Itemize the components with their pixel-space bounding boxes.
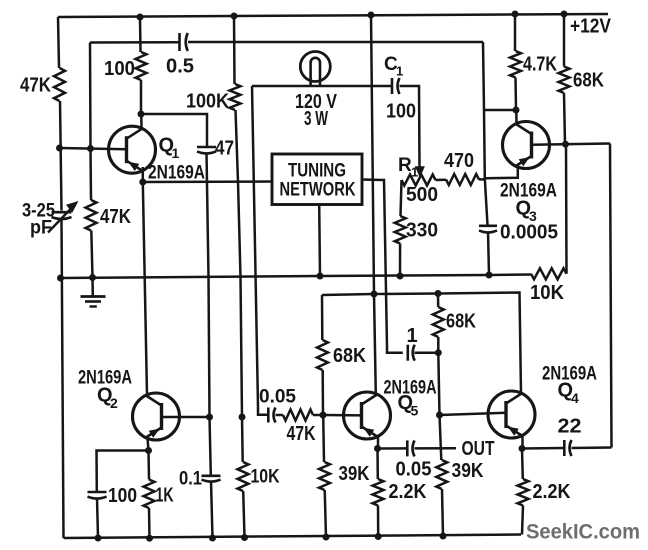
capacitor 47 <box>197 147 216 153</box>
svg-text:2.2K: 2.2K <box>389 481 427 503</box>
label 0.0005 <box>500 222 558 244</box>
svg-text:0.05: 0.05 <box>259 386 296 408</box>
wire 39K top lead (left) <box>322 415 325 462</box>
label 100K <box>186 91 230 113</box>
resistor 47K (Q1 base to +12V) <box>54 68 65 101</box>
wire top +12V rail <box>58 14 608 17</box>
ground symbol <box>81 297 106 307</box>
label 39K (right) <box>452 460 484 482</box>
wire 0.1 cap to bottom rail <box>211 481 213 538</box>
wire Q3 collector stub <box>515 110 518 125</box>
label 47K (Q1 base lower) <box>100 206 131 228</box>
label 330 <box>406 220 438 242</box>
svg-text:2: 2 <box>110 395 118 411</box>
label +12V <box>570 16 612 38</box>
wire 68K bottom to junction <box>437 337 440 353</box>
wire 68K lead (mid) <box>437 294 440 308</box>
wire Q4 emitter to 22 cap <box>522 447 563 450</box>
node Q2 base wire end junction <box>239 414 246 421</box>
wire Q2 emitter stub <box>148 438 149 451</box>
svg-text:+12V: +12V <box>570 16 612 38</box>
svg-text:68K: 68K <box>333 345 366 367</box>
wire oscillator bus (Q5/Q4 collectors) <box>322 293 521 394</box>
svg-text:47K: 47K <box>100 206 131 228</box>
label TUNING <box>288 161 346 182</box>
node ground stub junction <box>89 274 96 281</box>
svg-text:47: 47 <box>215 138 234 160</box>
svg-text:470: 470 <box>444 150 474 172</box>
svg-text:2.2K: 2.2K <box>533 481 571 503</box>
svg-text:1: 1 <box>396 64 403 79</box>
svg-text:0.05: 0.05 <box>396 459 432 481</box>
wire Q3 collector junction to bypass line <box>484 109 516 112</box>
node 0.1 line bottom rail junction <box>209 535 216 542</box>
transistor Q3 2N169A <box>503 122 550 169</box>
label pF <box>30 218 52 239</box>
resistor 100 (Q1 collector) <box>136 52 147 80</box>
label 68K (left osc) <box>333 345 366 367</box>
wire left rail lower segment <box>62 220 64 539</box>
label OUT <box>462 438 495 460</box>
wire 39K bottom lead (left) <box>325 490 326 537</box>
wire 1-cap to 68K bottom node <box>415 351 439 354</box>
wire Q1 emitter to tuning network <box>143 180 272 183</box>
resistor 470 <box>446 174 479 185</box>
node 68K bottom / 1-cap junction <box>435 349 442 356</box>
wire 4.7K to Q3 collector node <box>514 78 517 111</box>
svg-text:47K: 47K <box>20 75 51 97</box>
label 4.7K <box>523 54 557 76</box>
wire Q3 emitter stub <box>485 165 518 179</box>
resistor 1K <box>144 480 155 509</box>
svg-text:pF: pF <box>30 218 52 239</box>
wire Q5 base wire <box>323 414 362 417</box>
capacitor 0.05 (Q5 input coupling) <box>268 408 275 423</box>
label SeekIC.com watermark <box>526 521 640 544</box>
resistor 68K (Q3 base) <box>559 67 570 94</box>
wire 68K top lead (Q3) <box>563 14 566 67</box>
svg-text:68K: 68K <box>446 310 476 332</box>
resistor 2.2K (Q5 emitter) <box>373 479 384 506</box>
svg-text:0.5: 0.5 <box>166 56 194 78</box>
wire tuning network bottom pin <box>318 205 321 277</box>
svg-text:68K: 68K <box>573 70 604 92</box>
label 2.2K (Q4) <box>533 481 571 503</box>
wire 0.5 cap left segment <box>90 41 179 44</box>
label 68K (Q3) <box>573 70 604 92</box>
wire ground stub <box>91 278 94 296</box>
svg-text:22: 22 <box>558 415 582 437</box>
wire 0.5 cap right segment <box>188 41 483 44</box>
label C1 <box>384 54 403 79</box>
wire 68K to Q5 base node <box>321 370 324 415</box>
label 22 <box>558 415 582 437</box>
wire 100K line middle <box>236 110 243 417</box>
label 2N169A (Q3) <box>500 179 557 201</box>
label 3-25 <box>22 201 55 222</box>
node 39K bottom rail junction (right) <box>440 533 447 540</box>
wire C1 to R1 wiper <box>400 86 420 167</box>
svg-text:1K: 1K <box>156 485 174 507</box>
resistor 330 <box>395 216 406 244</box>
node Q4 emitter junction <box>519 445 526 452</box>
label 2N169A (Q5) <box>384 377 437 399</box>
capacitor 22 <box>564 440 571 456</box>
svg-text:5: 5 <box>411 403 419 419</box>
wire 39K bottom lead (right) <box>442 489 443 536</box>
node Q3 collector junction <box>513 107 520 114</box>
label 0.1 <box>179 468 202 489</box>
svg-text:SeekIC.com: SeekIC.com <box>526 521 640 544</box>
svg-text:1: 1 <box>411 165 418 180</box>
svg-text:4: 4 <box>571 390 579 406</box>
wire 47K to ground wire <box>91 231 92 278</box>
resistor 47K (Q1 base to ground wire) <box>86 200 97 231</box>
node V8 junction on oscillator bus <box>371 291 378 298</box>
wire down to 39K (right) <box>440 415 442 460</box>
svg-text:500: 500 <box>406 184 438 206</box>
label 0.5 <box>166 56 194 78</box>
transistor Q1 2N169A <box>109 126 156 173</box>
svg-text:39K: 39K <box>339 463 370 485</box>
node top rail / 100K line <box>231 13 238 20</box>
label 1K <box>156 485 174 507</box>
wire 22 cap to right rail <box>572 446 612 449</box>
node Q4 base wire junction <box>436 412 443 419</box>
wire Q1 emitter stub <box>142 167 145 182</box>
node top rail / 68K <box>561 11 568 18</box>
label 10K (horizontal) <box>530 282 565 304</box>
label Q4 <box>558 380 580 407</box>
node top rail / V8 <box>368 12 375 19</box>
node Q1 emitter junction <box>139 179 146 186</box>
node tuning network pin to ground wire <box>317 273 324 280</box>
capacitor 0.0005 <box>479 226 497 233</box>
svg-text:10K: 10K <box>251 466 280 488</box>
resistor 68K (middle) <box>433 307 444 337</box>
wire 10K riser to Q3 base <box>565 145 568 274</box>
capacitor 1 (feedback) <box>408 345 415 361</box>
resistor 4.7K <box>510 51 521 78</box>
label 39K (left) <box>339 463 370 485</box>
wire 4.7K top lead <box>514 14 517 51</box>
svg-text:100: 100 <box>386 101 416 123</box>
wire 68K lead (left osc) <box>321 295 324 340</box>
label Q1 <box>159 135 180 162</box>
node 2.2K bottom rail junction (Q5) <box>375 533 382 540</box>
node 330 ground bus junction <box>397 273 404 280</box>
wire 100 resistor top lead <box>139 17 142 52</box>
wire Q5 emitter to 0.05 cap <box>378 447 407 450</box>
label 2N169A (Q4) <box>542 363 597 385</box>
svg-text:TUNING: TUNING <box>288 161 346 182</box>
label 100 (Q2 bypass) <box>108 485 137 507</box>
svg-text:1: 1 <box>172 145 180 161</box>
wire tuning network right pin <box>362 180 403 353</box>
label 0.05 (output) <box>396 459 432 481</box>
wire OUT stub <box>415 447 457 450</box>
wire 1K bottom lead <box>148 508 151 538</box>
label 500 <box>406 184 438 206</box>
label 47K (top left) <box>20 75 51 97</box>
wire left rail mid segment <box>60 101 62 211</box>
wire 2.2K top lead (Q4) <box>521 449 524 480</box>
label 10K (bottom) <box>251 466 280 488</box>
label 120 V <box>295 91 338 113</box>
resistor 68K (left oscillator) <box>317 340 328 370</box>
resistor 100K <box>230 84 241 110</box>
wire V8 from top rail to Q5 collector <box>371 15 376 395</box>
svg-text:NETWORK: NETWORK <box>280 180 356 201</box>
label 0.05 (input) <box>259 386 296 408</box>
label Q5 <box>398 392 419 418</box>
svg-text:330: 330 <box>406 220 438 242</box>
svg-text:47K: 47K <box>287 423 316 445</box>
wire 330 bottom lead <box>399 244 402 277</box>
wire 0.5-cap branch vertical (x=90) <box>90 43 91 201</box>
capacitor 100 (Q2 bypass) <box>88 492 107 499</box>
resistor 39K (left) <box>319 462 330 490</box>
label 47 (cap) <box>215 138 234 160</box>
label Q3 <box>516 198 538 225</box>
wire left rail upper segment <box>58 17 59 68</box>
svg-text:R: R <box>398 155 412 176</box>
wire 0.05 to 47K <box>276 414 284 417</box>
wire Q3 base wire <box>532 144 611 145</box>
transistor Q2 2N169A <box>133 393 180 440</box>
resistor 10K (vertical) <box>238 462 249 491</box>
node Q2 base wire junction on 0.1 line <box>206 414 213 421</box>
wire 47K to Q5 base node <box>313 414 323 417</box>
wire Q5 emitter stub <box>377 438 380 449</box>
label 100 (C1) <box>386 101 416 123</box>
svg-text:3 W: 3 W <box>304 108 328 130</box>
wire Q4 emitter stub <box>521 437 524 449</box>
wire 10K top lead <box>241 417 244 462</box>
transistor Q4 2N169A <box>488 391 535 438</box>
node 39K bottom rail junction (left) <box>323 534 330 541</box>
node 47K top junction on Q1 base wire <box>87 145 94 152</box>
wire 2.2K bottom lead (Q4) <box>522 506 523 535</box>
node ground bus / left rail <box>57 275 64 282</box>
label 68K (mid) <box>446 310 476 332</box>
svg-text:0.1: 0.1 <box>179 468 202 489</box>
svg-text:3: 3 <box>529 208 537 224</box>
wiper arrow onto R1 <box>415 166 425 178</box>
wire 68K bottom lead (Q3) <box>564 93 565 144</box>
capacitor 0.1 <box>202 476 221 482</box>
transistor Q5 2N169A <box>344 392 391 439</box>
wire 2.2K top lead (Q5) <box>376 449 379 480</box>
svg-text:0.0005: 0.0005 <box>500 222 558 244</box>
svg-text:4.7K: 4.7K <box>523 54 557 76</box>
wire 100 cap to bottom rail <box>97 498 98 538</box>
wire Q2 emitter to 100 cap <box>97 451 149 492</box>
node Q1 base / left rail junction <box>56 145 63 152</box>
label 470 <box>444 150 474 172</box>
node top rail / 100 resistor <box>137 14 144 21</box>
resistor 2.2K (Q4 emitter) <box>518 479 529 506</box>
node Q2 emitter junction <box>145 447 152 454</box>
wire pot to 470 <box>436 178 447 181</box>
label 2N169A (Q1) <box>148 162 205 184</box>
label 2.2K (Q5) <box>389 481 427 503</box>
wire 100 resistor bottom lead <box>140 80 143 114</box>
label 1 (cap) <box>407 325 418 347</box>
svg-text:100: 100 <box>104 58 135 80</box>
svg-text:10K: 10K <box>530 282 565 304</box>
wire junction down to Q4 base node <box>438 353 439 415</box>
svg-text:2N169A: 2N169A <box>148 162 205 184</box>
wire ground bus horizontal <box>61 275 532 279</box>
wire Q1 emitter down to Q2 collector <box>143 182 147 395</box>
resistor 47K (Q5 base series) <box>283 410 313 421</box>
wire 47-cap/0.1-cap vertical <box>207 153 211 475</box>
wire 2.2K bottom lead (Q5) <box>377 506 380 537</box>
node 1K bottom rail junction <box>146 535 153 542</box>
svg-text:OUT: OUT <box>462 438 495 460</box>
capacitor 0.05 (output coupling) <box>407 440 414 456</box>
label 47K (series) <box>287 423 316 445</box>
svg-text:100: 100 <box>108 485 137 507</box>
resistor 10K (horizontal) <box>531 268 567 279</box>
label 3 W <box>304 108 328 130</box>
label R1 <box>398 155 418 180</box>
wire 0.0005 to ground bus <box>488 232 489 275</box>
svg-text:1: 1 <box>407 325 418 347</box>
node 100 cap bottom rail junction <box>95 535 102 542</box>
node Q3 base / 68K / 10K junction <box>562 141 569 148</box>
node Q1 collector junction <box>138 111 145 118</box>
wire Q1 collector stub <box>140 114 143 129</box>
node 68K top junction on oscillator bus <box>435 290 442 297</box>
wire lamp branch vertical (to 0.05 cap) <box>252 86 267 415</box>
node Q5 base junction <box>320 412 327 419</box>
capacitor C1 <box>392 78 400 94</box>
wire 1K top lead <box>147 451 150 480</box>
svg-text:100K: 100K <box>186 91 230 113</box>
capacitor 0.5 <box>180 33 188 51</box>
label NETWORK <box>280 180 356 201</box>
node 10K bottom rail junction <box>241 534 248 541</box>
label 2N169A (Q2) <box>78 367 132 389</box>
wire Q4 base wire <box>440 413 507 415</box>
resistor 39K (right) <box>436 460 447 489</box>
wire 100K top lead <box>233 16 236 84</box>
wire bypass vertical (0.5 bus down) <box>483 42 488 225</box>
node 0.0005 ground bus junction <box>486 272 493 279</box>
potentiometer R1 500 <box>402 175 436 186</box>
wire lamp wire horizontal <box>252 85 391 88</box>
wire 10K bottom lead <box>243 491 244 538</box>
wire Q1 base to left rail <box>60 148 127 149</box>
tuning network box <box>272 154 362 205</box>
wire pot left corner down <box>401 180 402 216</box>
variable capacitor 3-25 pF <box>48 201 79 233</box>
label 100 (Q1 collector) <box>104 58 135 80</box>
wire Q2 base wire <box>162 416 210 419</box>
label Q2 <box>97 385 118 412</box>
wire right rail <box>610 144 612 448</box>
lamp 120V 3W <box>300 52 330 87</box>
svg-text:39K: 39K <box>452 460 484 482</box>
node Q5 emitter junction <box>374 445 381 452</box>
node top rail / 4.7K <box>512 11 519 18</box>
wire bottom ground rail <box>64 535 522 539</box>
wire Q1 collector to 47 cap corner <box>141 114 207 147</box>
wire 470 right lead <box>479 178 485 181</box>
